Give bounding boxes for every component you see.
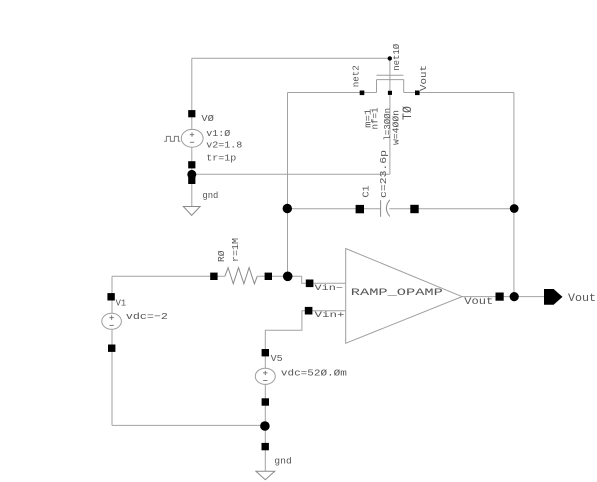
pin square opamp output (496, 293, 504, 301)
svg-text:Vin−: Vin− (315, 284, 344, 293)
wire Vout vertical (513, 93, 515, 297)
pin square V5 top (262, 349, 269, 356)
wire V0 bottom vertical (191, 147, 193, 207)
junction opamp out/Vout (510, 292, 519, 301)
wire V0 top vertical (191, 58, 193, 130)
pin square V5 bottom (262, 398, 269, 405)
junction gate top (388, 56, 392, 60)
V5 plus sign (263, 371, 267, 375)
source V5 circle (255, 368, 275, 384)
svg-text:net2: net2 (351, 65, 362, 87)
svg-text:Vin+: Vin+ (315, 311, 345, 320)
op-amp U: RAMP_OPAMP triangle (346, 249, 462, 344)
pin square Vin+ (305, 307, 313, 315)
wire V1 bottom vertical (111, 329, 113, 425)
capacitor C1 left plate (380, 200, 382, 217)
pin square gnd bottom (262, 443, 269, 450)
wire V5 top vertical (264, 349, 266, 369)
transistor T0 gate bar (377, 74, 404, 76)
V0 plus sign (190, 132, 194, 136)
V5 minus sign (263, 380, 267, 382)
output port Vout pentagon (544, 289, 563, 305)
wire cap row left (288, 208, 381, 210)
wire opamp output stub (462, 296, 496, 298)
pin square V1 bottom (108, 345, 115, 352)
svg-text:VØ: VØ (201, 113, 214, 124)
svg-text:V5: V5 (271, 353, 283, 364)
wire V5 bottom vertical (264, 385, 266, 472)
wire bottom horizontal (112, 424, 265, 426)
wire R0 row left (112, 275, 225, 277)
svg-text:r=1M: r=1M (230, 238, 241, 262)
junction bottom gnd (260, 421, 270, 431)
svg-text:nf=1: nf=1 (370, 108, 380, 130)
wire drain right horizontal (404, 92, 514, 94)
svg-text:Vout: Vout (464, 296, 493, 308)
junction cap/Vout (510, 204, 519, 213)
pin square transistor source (360, 91, 365, 96)
wire gate vertical (389, 58, 391, 79)
pin square R0 left (210, 273, 217, 280)
wire jog to Vin- (302, 276, 307, 283)
V1 plus sign (109, 315, 113, 319)
wire Vin+ to V5 (265, 311, 305, 349)
svg-text:V1: V1 (116, 297, 127, 308)
svg-text:w=4ØØn: w=4ØØn (392, 110, 402, 145)
pin square transistor drain (415, 91, 420, 96)
svg-text:C1: C1 (361, 185, 372, 197)
source V0 circle (181, 129, 203, 147)
svg-text:vdc=−2: vdc=−2 (126, 311, 168, 322)
junction V0/gnd/bulk (187, 170, 196, 179)
wire opamp out to port (504, 296, 544, 298)
wire bulk row horizontal (192, 173, 390, 175)
svg-text:Vout: Vout (418, 65, 429, 91)
ground symbol bottom (256, 471, 275, 479)
wire source left horizontal (288, 92, 377, 94)
svg-text:RØ: RØ (216, 250, 227, 262)
V1 minus sign (110, 324, 114, 326)
wire net2 vertical (287, 93, 289, 277)
pin square cap right (410, 205, 418, 213)
svg-text:gnd: gnd (202, 190, 218, 201)
wire R0 row right (257, 275, 302, 277)
pin square R0 right (265, 273, 272, 280)
svg-text:tr=1p: tr=1p (206, 152, 236, 163)
resistor R0 zigzag (225, 268, 257, 284)
capacitor C1 right curved plate (386, 200, 389, 217)
transistor T0 source lead (376, 80, 378, 93)
svg-text:RAMP_OPAMP: RAMP_OPAMP (351, 287, 443, 299)
wire top horizontal V0 to gate (192, 57, 390, 59)
source V1 circle (102, 313, 122, 329)
pin square V1 top (107, 293, 114, 300)
junction net2/cap (283, 204, 292, 213)
pin square V0 bottom (188, 161, 195, 168)
transistor T0 channel bar (377, 79, 404, 81)
wire Vin+ stub (312, 310, 346, 312)
svg-text:v2=1.8: v2=1.8 (206, 140, 242, 151)
svg-text:TØ: TØ (401, 106, 415, 120)
wire V1 vertical (111, 276, 113, 313)
svg-text:c=23.6p: c=23.6p (378, 150, 389, 198)
pin square cap left (356, 205, 364, 213)
V0 squarewave icon (164, 136, 180, 141)
pin square gnd top (188, 177, 195, 184)
pin square transistor bulk (388, 91, 392, 95)
svg-text:net1Ø: net1Ø (391, 44, 402, 71)
svg-text:v1:Ø: v1:Ø (206, 128, 230, 139)
svg-text:gnd: gnd (274, 455, 292, 466)
svg-text:Vout: Vout (568, 293, 596, 305)
pin square Vin- (306, 280, 314, 288)
wire Vin- stub (313, 282, 346, 284)
V0 minus sign (190, 141, 194, 143)
wire bulk vertical (389, 80, 391, 175)
pin square V0 top (188, 110, 195, 117)
ground symbol at V0 (183, 207, 200, 216)
svg-text:vdc=52Ø.Øm: vdc=52Ø.Øm (281, 368, 347, 379)
junction R0/net2 (283, 272, 293, 282)
transistor T0 drain lead (403, 80, 405, 93)
wire cap row right (389, 208, 514, 210)
